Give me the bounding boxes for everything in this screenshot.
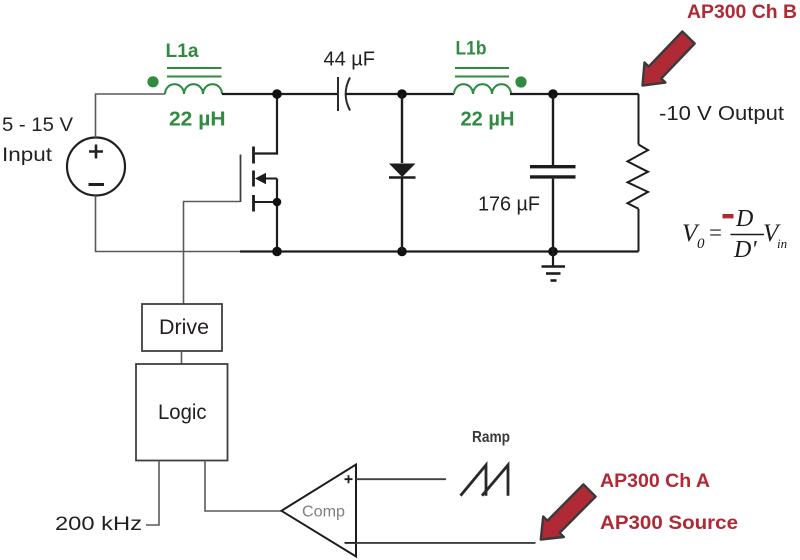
svg-text:Logic: Logic xyxy=(158,400,207,424)
arrow AP300 Ch A / Source xyxy=(541,484,596,539)
svg-text:5 - 15 V: 5 - 15 V xyxy=(2,114,73,136)
node B junction dot xyxy=(397,89,407,99)
ramp sawtooth symbol xyxy=(461,465,509,496)
ground xyxy=(542,252,566,281)
Q1 gate bar xyxy=(240,155,242,203)
wire gate xyxy=(184,202,241,305)
comparator minus pin xyxy=(345,542,357,544)
svg-text:in: in xyxy=(777,236,787,251)
wire Logic left output xyxy=(146,461,159,526)
svg-text:22 µH: 22 µH xyxy=(169,109,226,131)
voltage source V input xyxy=(67,138,125,196)
wire C1 to node B to L1b xyxy=(346,93,455,95)
bottom rail xyxy=(240,250,639,252)
svg-text:Input: Input xyxy=(2,144,53,166)
node A junction dot xyxy=(272,89,282,99)
svg-text:44 µF: 44 µF xyxy=(324,49,376,71)
L1b polarity dot xyxy=(515,76,526,87)
wire Logic to comparator xyxy=(205,461,281,512)
node Q1 source junction dot xyxy=(273,198,282,207)
svg-text:-10 V Output: -10 V Output xyxy=(659,103,784,125)
wire L1b to node C to output corner xyxy=(510,93,639,95)
wire source top xyxy=(96,94,166,138)
box Logic xyxy=(136,364,228,461)
comparator plus pin xyxy=(345,475,353,483)
wire plus input to ramp xyxy=(356,478,446,480)
op-amp comparator xyxy=(281,465,356,557)
capacitor C1 44uF xyxy=(338,77,350,111)
wire minus input xyxy=(356,542,536,544)
wire Drive to Logic xyxy=(181,351,183,364)
inductor L1a xyxy=(165,68,222,94)
node diode-rail junction dot xyxy=(397,247,407,257)
svg-text:L1b: L1b xyxy=(456,39,487,60)
transistor Q1 MOSFET xyxy=(241,94,278,252)
wire L1a to node A to C1 xyxy=(222,93,338,95)
label 5 - 15 V Input xyxy=(2,114,73,166)
L1a polarity dot xyxy=(147,76,158,87)
resistor R load xyxy=(628,94,649,252)
svg-text:D: D xyxy=(735,206,753,232)
svg-text:Drive: Drive xyxy=(159,316,209,339)
formula V0 = -D/D' Vin xyxy=(682,206,787,263)
Q1 body arrow xyxy=(262,178,277,180)
diode D1 xyxy=(389,94,416,252)
wire source lead xyxy=(276,179,278,252)
svg-text:0: 0 xyxy=(697,236,705,252)
svg-text:AP300 Ch A: AP300 Ch A xyxy=(600,471,710,492)
svg-text:Ramp: Ramp xyxy=(472,429,510,446)
svg-text:Comp: Comp xyxy=(302,504,345,521)
arrow AP300 Ch B xyxy=(643,32,695,86)
node C junction dot xyxy=(548,89,558,99)
wire source bottom xyxy=(96,196,241,252)
capacitor C2 176uF xyxy=(530,94,576,252)
node source-rail junction dot xyxy=(272,247,282,257)
svg-text:=: = xyxy=(709,220,722,245)
inductor L1b xyxy=(454,68,511,94)
Q1 channel bars xyxy=(252,147,255,212)
svg-text:176 µF: 176 µF xyxy=(478,194,540,216)
svg-text:AP300 Ch B: AP300 Ch B xyxy=(687,2,797,23)
box Drive xyxy=(142,304,222,351)
svg-text:200 kHz: 200 kHz xyxy=(55,513,142,535)
node ground-rail junction dot xyxy=(548,247,558,257)
wire drain xyxy=(255,94,277,154)
svg-text:22 µH: 22 µH xyxy=(461,109,515,131)
svg-text:AP300 Source: AP300 Source xyxy=(600,513,738,534)
svg-text:L1a: L1a xyxy=(166,41,199,62)
svg-text:D': D' xyxy=(733,237,757,263)
